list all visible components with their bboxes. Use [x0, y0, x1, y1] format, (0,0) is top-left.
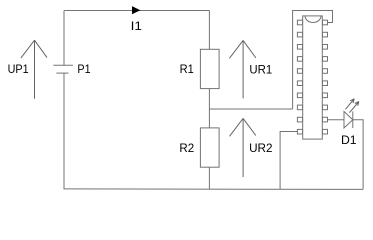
pin 15 (U1 right) [323, 81, 328, 86]
battery P1 negative plate [56, 72, 68, 74]
resistor R1 [200, 49, 219, 88]
wire D1 to bottom rail [353, 120, 363, 190]
pin 13 (U1 right) [323, 105, 328, 110]
LED D1 cathode bar [352, 111, 354, 128]
pin 10 (U1 left) [297, 129, 302, 134]
resistor R2 [200, 128, 219, 167]
light emission arrow 1 of D1 [346, 99, 355, 110]
pin 18 (U1 right) [323, 45, 328, 50]
battery P1 positive plate [53, 64, 73, 66]
voltage arrow UR2 [230, 118, 256, 177]
svg-text:R1: R1 [180, 62, 194, 76]
wire U1 pin 10 to bottom rail [280, 132, 297, 190]
pin 20 (U1 right) [323, 20, 328, 25]
pin 2 (U1 left) [297, 32, 302, 37]
wire top rail [64, 10, 209, 12]
light emission arrow 2 of D1 [350, 102, 359, 113]
svg-text:R2: R2 [179, 141, 194, 155]
U1 orientation notch [305, 16, 321, 23]
pin 17 (U1 right) [323, 57, 328, 62]
svg-text:I1: I1 [131, 19, 143, 33]
svg-text:UR1: UR1 [249, 62, 272, 76]
wire node junction R1/R2 to U1 [209, 108, 292, 110]
wire bottom rail [64, 188, 363, 191]
svg-text:D1: D1 [341, 133, 357, 147]
wire R1-R2 link [208, 89, 210, 128]
svg-text:UR2: UR2 [249, 141, 273, 155]
pin 8 (U1 left) [297, 105, 302, 110]
pin 6 (U1 left) [297, 81, 302, 86]
wire R1 top lead [208, 11, 210, 50]
pin 3 (U1 left) [297, 45, 302, 50]
wire battery P1 top lead [63, 11, 65, 66]
wire R2 bottom lead [208, 167, 210, 189]
pin 19 (U1 right) [323, 32, 328, 37]
op-amp U1 body (DIP-20 package) [303, 16, 323, 139]
wire U1 pin 12 to LED D1 [328, 119, 344, 121]
svg-text:UP1: UP1 [8, 62, 29, 76]
voltage arrow UR1 [229, 40, 255, 98]
current arrow I1 [132, 6, 140, 14]
pin 4 (U1 left) [297, 57, 302, 62]
pin 7 (U1 left) [297, 93, 302, 98]
svg-text:P1: P1 [77, 62, 90, 76]
pin 11 (U1 right) [323, 129, 328, 134]
pin 1 (U1 left) [297, 20, 302, 25]
pin 14 (U1 right) [323, 93, 328, 98]
pin 16 (U1 right) [323, 69, 328, 74]
pin 12 (U1 right) [323, 117, 328, 122]
wire battery P1 bottom lead [63, 73, 65, 189]
pin 5 (U1 left) [297, 69, 302, 74]
LED D1 triangle [344, 111, 353, 128]
wire junction to U1 frame (left, over top, to pin 1 right) [293, 11, 333, 110]
pin 9 (U1 left) [297, 117, 302, 122]
voltage arrow UP1 [21, 40, 47, 98]
